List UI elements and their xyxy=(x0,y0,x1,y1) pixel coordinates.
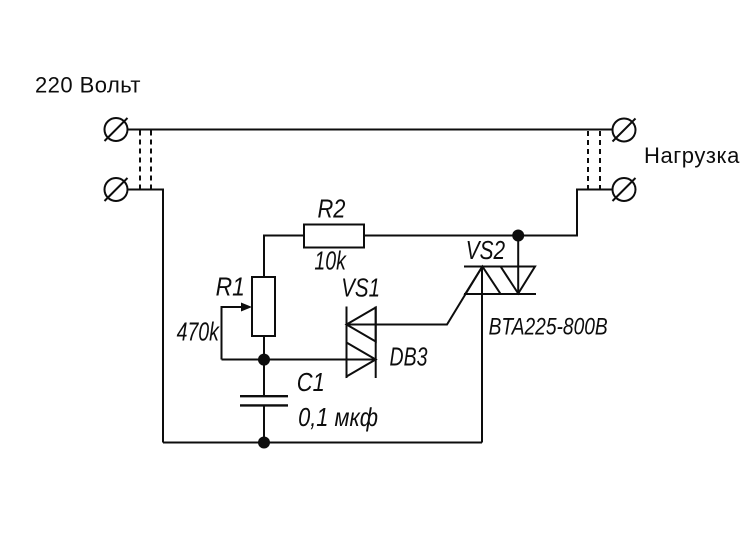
wire C1 top lead xyxy=(263,360,265,397)
wire C1 bottom lead xyxy=(263,405,265,442)
svg-text:VS1: VS1 xyxy=(341,273,380,302)
svg-text:C1: C1 xyxy=(297,368,325,397)
terminal X2 bottom-left xyxy=(105,178,128,201)
capacitor C1 xyxy=(240,396,288,405)
node junction R2/triac xyxy=(512,230,524,242)
wire top (X1 to X3) xyxy=(128,129,613,131)
svg-text:VS2: VS2 xyxy=(466,236,505,265)
terminal X3 top-right xyxy=(613,119,636,142)
wire X4 lead down to R2 net xyxy=(364,190,613,236)
svg-text:DB3: DB3 xyxy=(390,342,428,371)
resistor R2 xyxy=(304,225,364,248)
potentiometer R1 body xyxy=(252,277,275,336)
node junction R1/C1 xyxy=(258,354,270,366)
terminal X4 bottom-right xyxy=(613,178,636,201)
node junction bottom xyxy=(258,437,270,449)
svg-text:220 Вольт: 220 Вольт xyxy=(35,73,141,98)
svg-text:BTA225-800B: BTA225-800B xyxy=(489,312,608,340)
svg-text:R1: R1 xyxy=(216,273,245,302)
wire R2 left lead down to R1 xyxy=(264,236,304,278)
svg-text:10k: 10k xyxy=(314,246,347,275)
diac VS1 xyxy=(347,307,376,379)
plug gap dashed lines right xyxy=(588,131,600,189)
plug gap dashed lines left xyxy=(140,131,151,190)
svg-text:R2: R2 xyxy=(318,195,346,224)
wire wiper net to diac xyxy=(222,359,375,361)
svg-text:Нагрузка: Нагрузка xyxy=(644,143,740,168)
terminal X1 top-left xyxy=(105,118,128,141)
wire bottom xyxy=(163,442,482,444)
wire triac MT1 up to node xyxy=(517,236,519,294)
wire R1 bottom lead xyxy=(263,336,265,360)
potentiometer R1 wiper arrow xyxy=(222,307,244,360)
svg-text:0,1 мкф: 0,1 мкф xyxy=(298,403,378,432)
wire triac MT2 down xyxy=(481,267,483,443)
wire diac to triac gate xyxy=(347,267,483,325)
wire X2 lead xyxy=(128,190,164,443)
triac VS2 xyxy=(464,267,536,295)
svg-text:470k: 470k xyxy=(177,317,221,346)
